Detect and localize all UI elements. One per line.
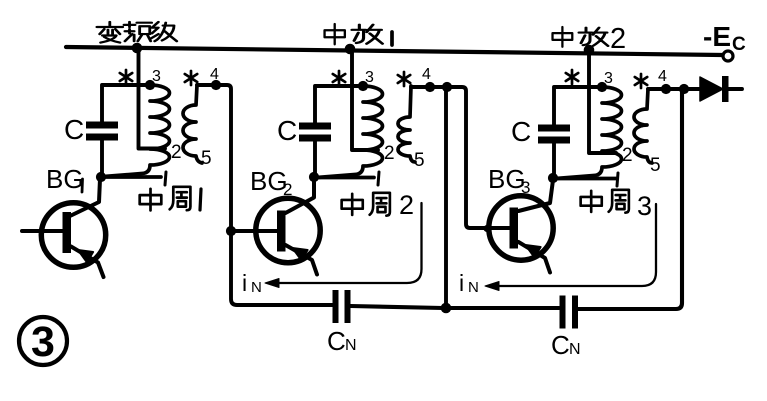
svg-text:-E: -E (703, 21, 731, 52)
wire pin3 of T3 to capacitor C top (554, 87, 602, 125)
label 中放2 (553, 23, 627, 55)
wire bottom rail CN to junction (351, 306, 444, 308)
annotation arrow iN (stage 3) (485, 204, 656, 291)
wire bottom rail junction to CN (stage 3) (449, 306, 559, 310)
wire BG2 base (234, 229, 277, 233)
wire feed from rail to tap2 of T2 (352, 51, 378, 150)
node T3 pin 3 (597, 82, 607, 92)
node 中放1 rail junction (345, 44, 356, 55)
svg-text:3: 3 (31, 318, 55, 366)
inductor T3 primary winding (556, 87, 622, 179)
wire C bottom to collector node (313, 142, 317, 175)
wire bottom rail CN up to diode node (578, 92, 682, 309)
transistor BG2 (256, 179, 320, 275)
capacitor C (stage 3) (538, 125, 570, 144)
svg-text:BG: BG (488, 164, 526, 194)
capacitor CN (stage 2) (333, 290, 351, 323)
node T3 pin 4 (661, 84, 671, 94)
svg-text:3: 3 (521, 178, 530, 197)
wire pin3 of T1 to capacitor C top (102, 85, 150, 122)
node T1 pin 3 (145, 80, 155, 90)
svg-text:i: i (459, 270, 464, 296)
label BG2 (250, 166, 292, 199)
annotation arrow iN (stage 2) (265, 203, 422, 288)
svg-text:C: C (551, 330, 570, 360)
label 中周2 (342, 190, 414, 220)
node 变频级 rail junction (132, 43, 143, 54)
figure number 3 (19, 317, 67, 366)
label BG3 (488, 164, 530, 197)
label 变频级 (97, 22, 177, 43)
polarity mark T3 primary (566, 70, 578, 84)
wire feed from rail to tap2 of T3 (589, 52, 616, 153)
label iN (stage 3) (459, 270, 479, 296)
polarity mark T3 secondary (635, 74, 647, 88)
svg-text:2: 2 (384, 143, 395, 164)
label iN (stage 2) (242, 270, 262, 296)
svg-text:C: C (511, 116, 531, 147)
label CN (stage 3) (551, 330, 581, 360)
wire pin3 of T2 to capacitor C top (315, 86, 363, 123)
svg-text:3: 3 (604, 70, 613, 87)
inductor T2 secondary winding (398, 86, 415, 162)
inductor T1 secondary winding (183, 85, 202, 163)
label pin 1 (T2) (378, 172, 379, 185)
svg-text:2: 2 (171, 142, 182, 163)
svg-text:2: 2 (283, 180, 292, 199)
label -Ec (703, 21, 746, 55)
wire T2 pin1 bottom (317, 176, 374, 180)
node CN tap on T2 pin4 wire (442, 82, 452, 92)
label pin 1 (T1) (165, 172, 166, 185)
svg-text:C: C (732, 34, 746, 55)
label 中周3 (581, 190, 652, 221)
svg-text:5: 5 (201, 148, 212, 169)
svg-text:3: 3 (637, 191, 652, 221)
transistor BG3 (489, 180, 553, 273)
node 中放2 rail junction (584, 45, 595, 56)
label 中周1 (140, 187, 201, 211)
node T2 pin 4 (425, 82, 435, 92)
node T1 pin 4 (211, 80, 221, 90)
svg-text:2: 2 (399, 190, 414, 220)
polarity mark T1 secondary (185, 71, 197, 85)
svg-text:3: 3 (365, 69, 374, 86)
svg-text:4: 4 (658, 68, 667, 85)
polarity mark T2 secondary (398, 72, 410, 86)
node T2 pin 3 (358, 81, 368, 91)
svg-text:2: 2 (622, 145, 633, 166)
svg-text:N: N (468, 279, 479, 296)
inductor T1 primary winding (104, 85, 170, 177)
svg-text:BG: BG (46, 164, 84, 194)
svg-text:4: 4 (422, 66, 431, 83)
svg-text:2: 2 (610, 23, 626, 55)
svg-text:BG: BG (250, 166, 288, 196)
capacitor C (stage 1) (86, 122, 118, 141)
label 中放1 (325, 24, 392, 45)
svg-text:C: C (327, 326, 346, 356)
label CN (stage 2) (327, 326, 357, 356)
svg-text:C: C (64, 114, 84, 145)
wire T1 pin4 down to BG2 base and bottom rail (197, 85, 333, 305)
wire T1 pin1 bottom (104, 175, 161, 179)
label BG1 (46, 164, 84, 194)
svg-text:i: i (242, 270, 247, 296)
svg-text:C: C (277, 115, 297, 146)
diode D (700, 76, 742, 102)
capacitor CN (stage 3) (560, 296, 579, 329)
svg-text:5: 5 (650, 155, 661, 176)
wire C bottom to collector node (100, 141, 104, 175)
node BG2 collector / T2 pin1 (309, 172, 319, 182)
svg-text:N: N (569, 341, 581, 358)
polarity mark T2 primary (333, 71, 345, 85)
wire top supply rail (66, 47, 722, 55)
wire feed from rail to tap2 of T1 (139, 50, 166, 149)
node bottom rail junction (441, 303, 452, 314)
transistor BG1 (22, 179, 106, 277)
inductor T3 secondary winding (634, 89, 652, 163)
wire T2 pin4 to BG3 base (411, 87, 489, 228)
node BG3 collector / T3 pin1 (548, 173, 558, 183)
node BG1 collector / T1 pin1 (96, 172, 106, 182)
polarity mark T1 primary (120, 70, 132, 84)
svg-text:N: N (251, 279, 262, 296)
node BG3 base connection blob (484, 225, 491, 232)
terminal -Ec (723, 51, 733, 61)
node BG2 base (226, 226, 236, 236)
capacitor C (stage 2) (299, 123, 331, 142)
wire T3 pin4 to diode (648, 87, 700, 91)
wire C bottom to collector node (552, 144, 556, 176)
node diode tap (679, 84, 689, 94)
wire CN riser to T2 pin4 (444, 90, 448, 305)
inductor T2 primary winding (317, 86, 383, 178)
svg-text:5: 5 (414, 150, 425, 171)
label pin 1 (T3) (617, 173, 618, 186)
wire T3 pin1 bottom (556, 177, 616, 181)
svg-text:N: N (345, 337, 357, 354)
svg-text:3: 3 (152, 68, 161, 85)
